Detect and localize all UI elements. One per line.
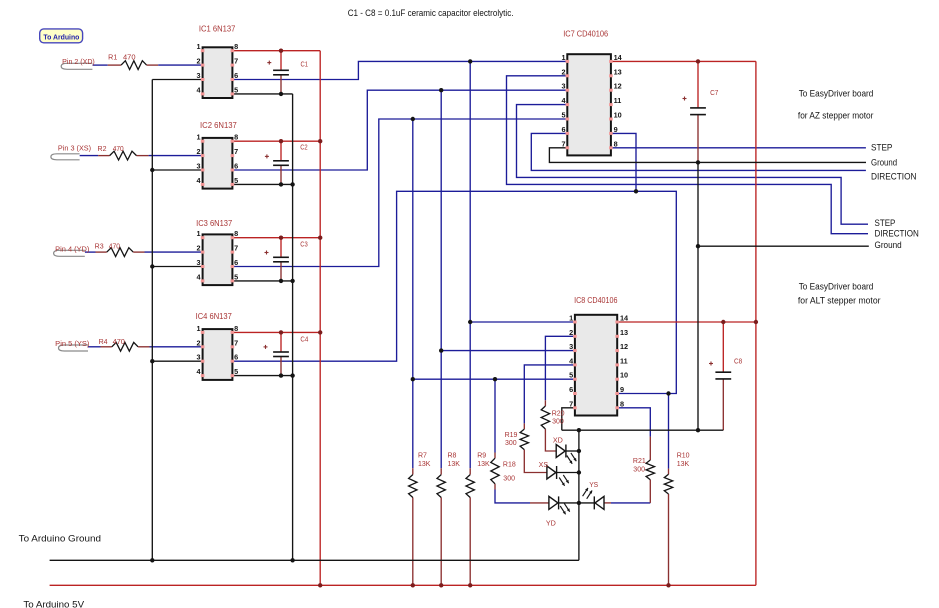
svg-text:XD: XD [553, 438, 563, 445]
svg-text:470: 470 [123, 55, 136, 62]
svg-text:DIRECTION: DIRECTION [871, 172, 917, 182]
svg-text:2: 2 [562, 67, 566, 76]
svg-text:470: 470 [113, 146, 124, 153]
svg-text:To EasyDriver board: To EasyDriver board [799, 281, 874, 291]
svg-text:2: 2 [197, 57, 201, 66]
svg-text:R20: R20 [552, 410, 565, 417]
svg-text:XS: XS [539, 462, 549, 469]
svg-text:3: 3 [197, 258, 201, 267]
svg-text:6: 6 [234, 162, 238, 171]
svg-text:13K: 13K [677, 461, 690, 468]
svg-text:300: 300 [552, 419, 564, 426]
svg-text:R21: R21 [633, 458, 646, 465]
svg-text:1: 1 [197, 229, 201, 238]
svg-text:2: 2 [197, 147, 201, 156]
svg-text:To Arduino 5V: To Arduino 5V [23, 600, 84, 608]
svg-text:8: 8 [614, 139, 618, 148]
svg-text:5: 5 [234, 85, 238, 94]
svg-text:C4: C4 [300, 337, 308, 344]
svg-text:2: 2 [569, 328, 573, 337]
svg-text:C3: C3 [300, 242, 308, 249]
svg-text:YD: YD [546, 520, 556, 527]
svg-text:14: 14 [614, 53, 623, 62]
svg-text:8: 8 [234, 133, 238, 142]
svg-text:R3: R3 [95, 244, 104, 251]
svg-text:1: 1 [569, 314, 573, 323]
svg-text:R8: R8 [448, 453, 457, 460]
svg-text:IC3 6N137: IC3 6N137 [196, 219, 233, 228]
svg-text:R2: R2 [98, 146, 107, 153]
svg-text:6: 6 [234, 258, 238, 267]
svg-text:Ground: Ground [871, 158, 897, 168]
svg-text:8: 8 [234, 42, 238, 51]
svg-text:R10: R10 [677, 453, 690, 460]
svg-text:7: 7 [234, 57, 238, 66]
svg-text:7: 7 [569, 399, 573, 408]
svg-text:R1: R1 [108, 55, 117, 62]
svg-text:9: 9 [620, 385, 624, 394]
svg-text:C7: C7 [710, 90, 718, 97]
svg-text:Ground: Ground [875, 240, 902, 250]
svg-text:8: 8 [234, 229, 238, 238]
svg-text:470: 470 [109, 244, 120, 251]
svg-text:Pin 2 (XD): Pin 2 (XD) [62, 59, 95, 66]
svg-text:3: 3 [197, 353, 201, 362]
svg-text:IC7 CD40106: IC7 CD40106 [563, 29, 609, 38]
svg-text:R7: R7 [418, 453, 427, 460]
svg-text:IC8 CD40106: IC8 CD40106 [574, 296, 618, 305]
svg-text:DIRECTION: DIRECTION [875, 229, 919, 239]
svg-text:Pin 3 (XS): Pin 3 (XS) [58, 146, 91, 153]
svg-text:1: 1 [197, 324, 201, 333]
svg-text:IC1 6N137: IC1 6N137 [199, 24, 236, 33]
svg-text:IC2 6N137: IC2 6N137 [200, 121, 237, 130]
svg-text:11: 11 [614, 96, 622, 105]
svg-text:5: 5 [569, 371, 573, 380]
svg-text:13K: 13K [448, 461, 461, 468]
svg-text:Pin 4 (YD): Pin 4 (YD) [55, 247, 89, 254]
svg-text:IC4 6N137: IC4 6N137 [196, 312, 233, 321]
svg-text:10: 10 [614, 111, 622, 120]
svg-text:1: 1 [197, 42, 201, 51]
svg-text:12: 12 [620, 342, 628, 351]
svg-text:5: 5 [234, 367, 238, 376]
svg-text:To Arduino: To Arduino [43, 33, 79, 42]
svg-text:300: 300 [505, 440, 517, 447]
svg-text:R9: R9 [477, 453, 486, 460]
svg-text:470: 470 [113, 339, 125, 346]
svg-text:3: 3 [197, 71, 201, 80]
svg-text:7: 7 [234, 244, 238, 253]
svg-text:8: 8 [234, 324, 238, 333]
svg-text:6: 6 [562, 125, 566, 134]
svg-text:3: 3 [197, 162, 201, 171]
svg-text:To EasyDriver board: To EasyDriver board [799, 89, 874, 99]
svg-text:6: 6 [569, 385, 573, 394]
svg-text:C1: C1 [301, 61, 309, 68]
svg-text:5: 5 [234, 176, 238, 185]
svg-text:13K: 13K [418, 461, 431, 468]
svg-text:R4: R4 [99, 339, 108, 346]
svg-text:10: 10 [620, 371, 628, 380]
svg-text:5: 5 [234, 272, 238, 281]
svg-text:13K: 13K [477, 461, 490, 468]
svg-text:2: 2 [197, 338, 201, 347]
svg-text:C8: C8 [734, 359, 742, 366]
svg-text:6: 6 [234, 353, 238, 362]
svg-text:Pin 5 (YS): Pin 5 (YS) [55, 341, 89, 348]
svg-text:300: 300 [633, 466, 645, 473]
svg-text:7: 7 [562, 139, 566, 148]
svg-text:6: 6 [234, 71, 238, 80]
svg-text:3: 3 [569, 342, 573, 351]
svg-text:STEP: STEP [875, 218, 896, 228]
svg-text:2: 2 [197, 244, 201, 253]
svg-text:14: 14 [620, 314, 629, 323]
svg-text:1: 1 [562, 53, 566, 62]
svg-text:300: 300 [503, 475, 515, 482]
svg-text:5: 5 [562, 111, 566, 120]
svg-text:for ALT stepper motor: for ALT stepper motor [798, 295, 881, 305]
svg-text:YS: YS [589, 482, 598, 489]
svg-text:C1 - C8 = 0.1uF ceramic capaci: C1 - C8 = 0.1uF ceramic capacitor electr… [348, 8, 514, 18]
svg-text:9: 9 [614, 125, 618, 134]
svg-text:3: 3 [562, 82, 566, 91]
svg-text:8: 8 [620, 399, 624, 408]
svg-text:11: 11 [620, 356, 628, 365]
svg-text:C2: C2 [300, 145, 308, 152]
svg-text:7: 7 [234, 147, 238, 156]
svg-text:R18: R18 [503, 462, 516, 469]
svg-text:13: 13 [614, 67, 622, 76]
svg-text:To Arduino Ground: To Arduino Ground [19, 533, 101, 543]
svg-text:7: 7 [234, 338, 238, 347]
svg-text:for AZ stepper motor: for AZ stepper motor [798, 110, 874, 120]
svg-text:12: 12 [614, 82, 622, 91]
svg-text:STEP: STEP [871, 142, 892, 152]
svg-text:R19: R19 [505, 432, 518, 439]
svg-text:13: 13 [620, 328, 628, 337]
svg-text:1: 1 [197, 133, 201, 142]
